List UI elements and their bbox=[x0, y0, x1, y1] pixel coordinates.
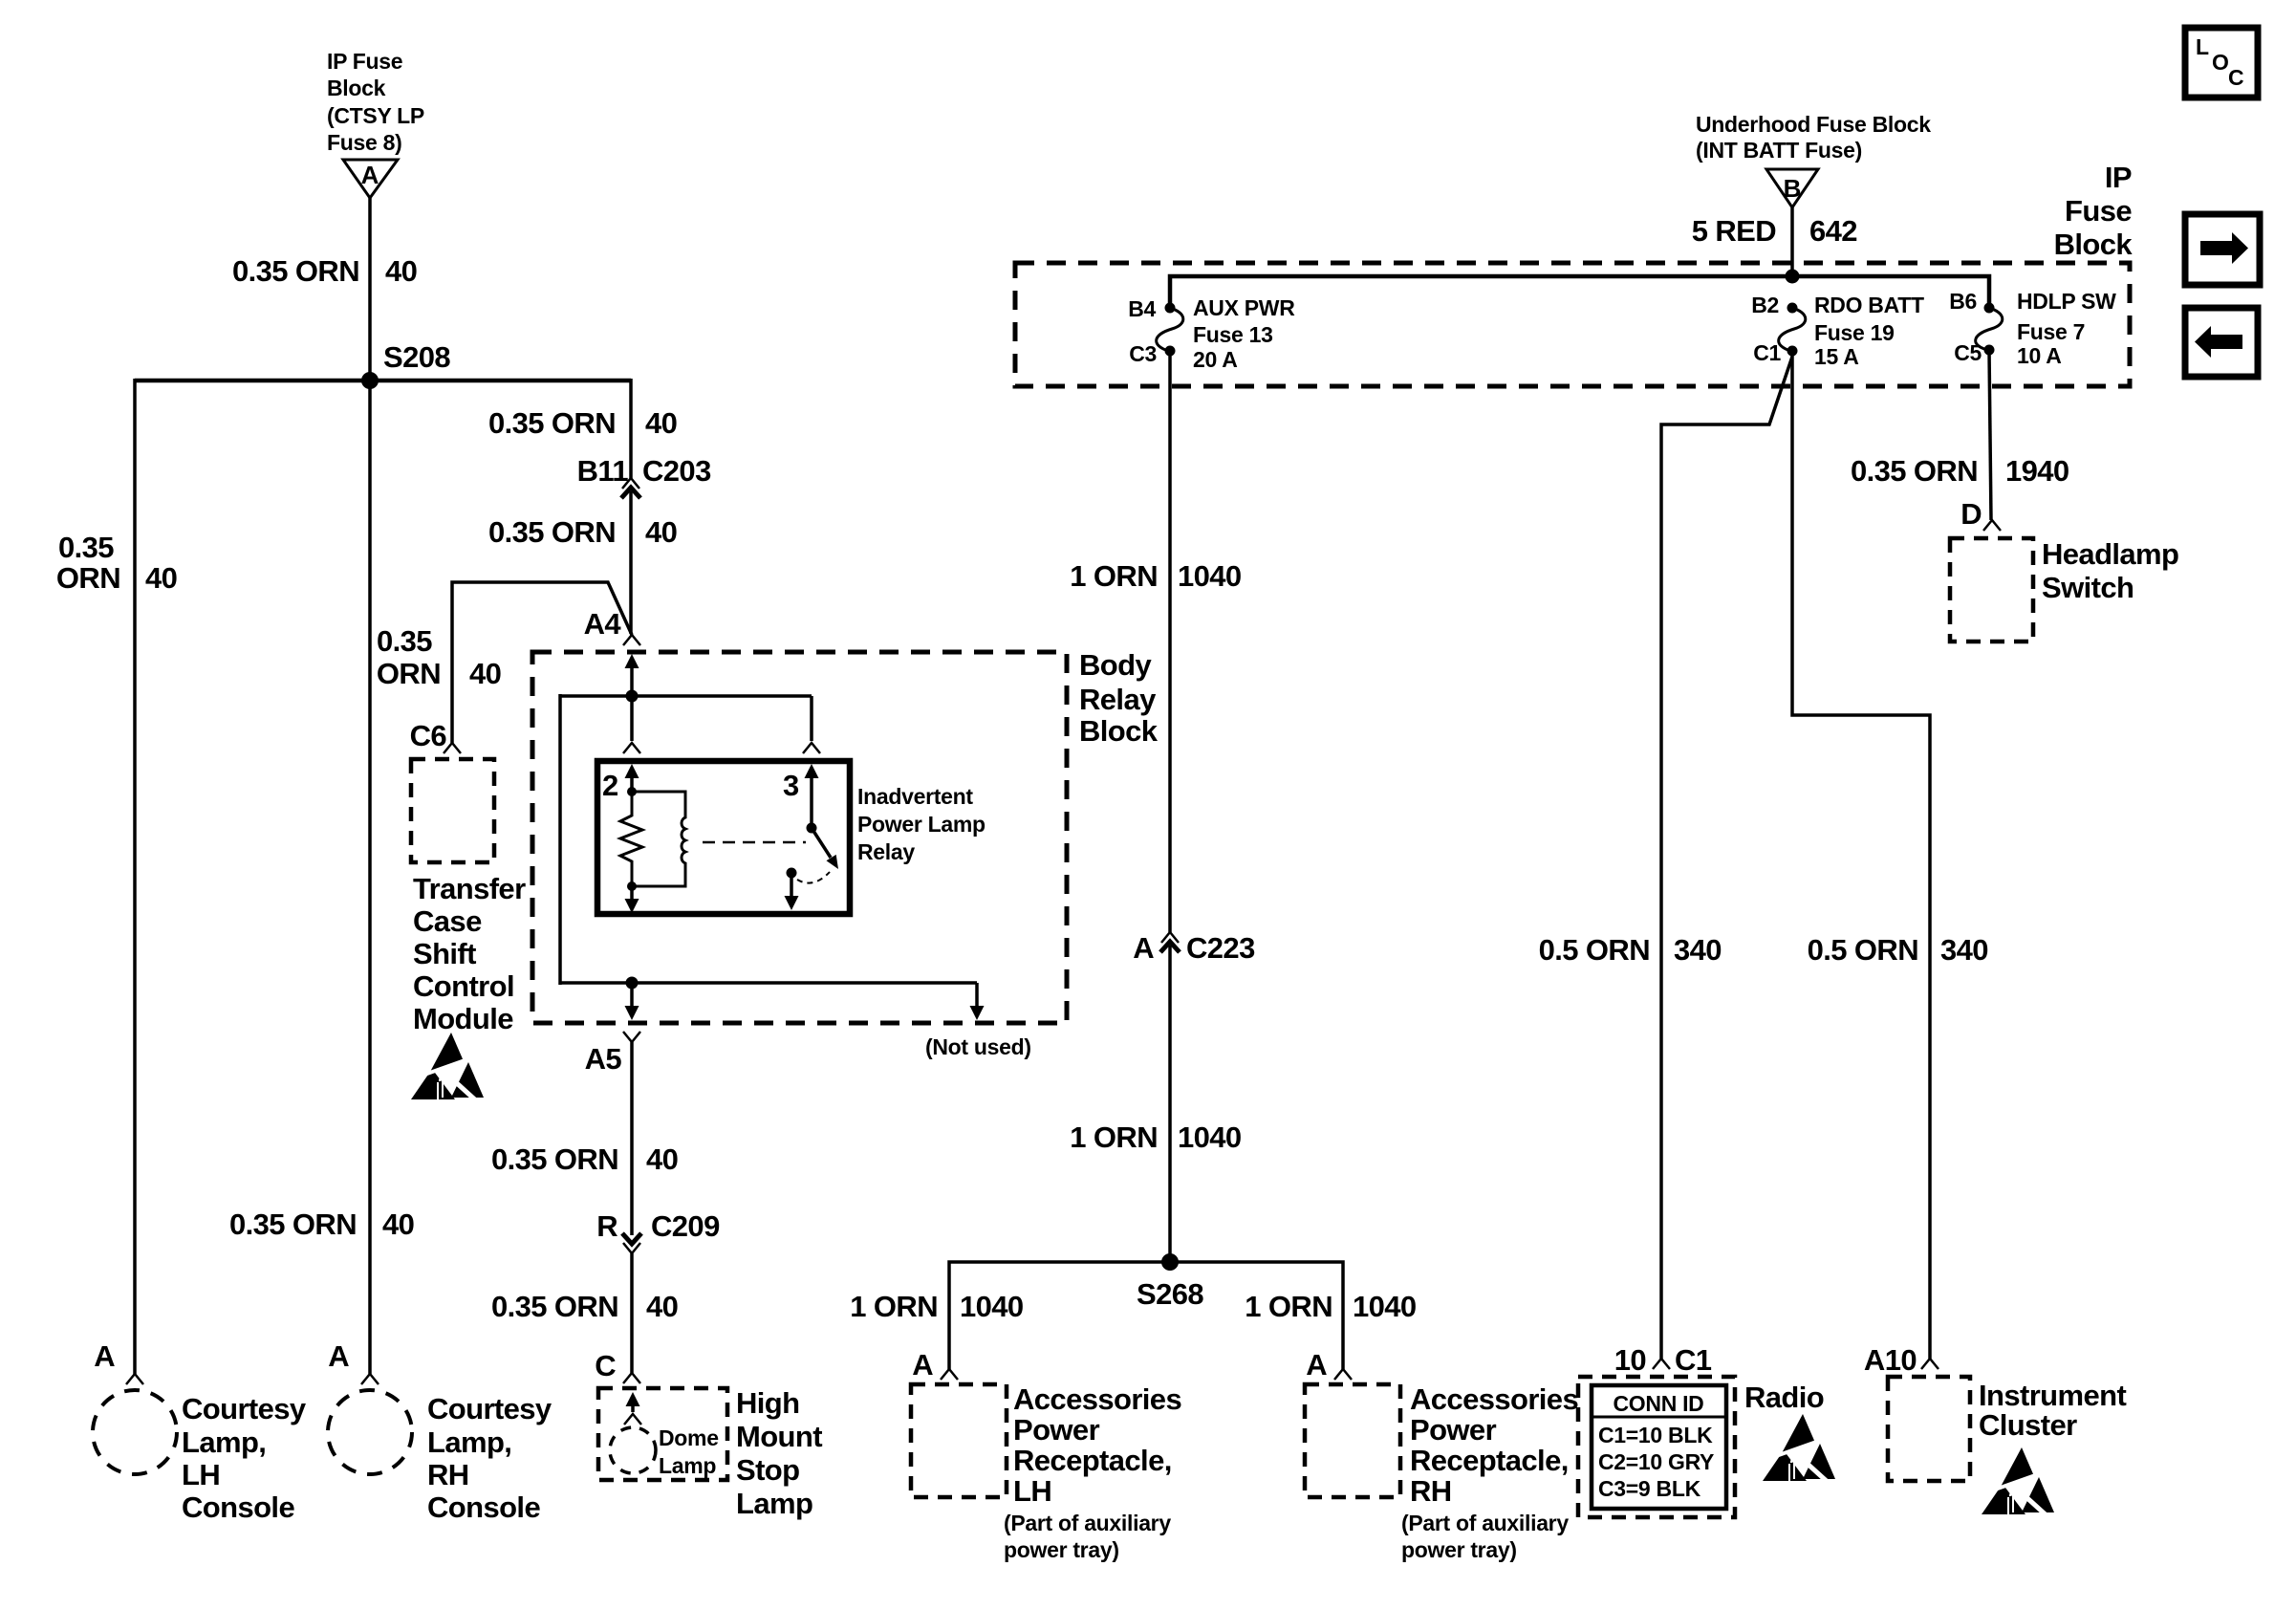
svg-text:RH: RH bbox=[1410, 1474, 1452, 1508]
transfer case shift control module dashed box bbox=[411, 759, 494, 862]
svg-text:C6: C6 bbox=[410, 719, 447, 752]
label Inadvertent Power Lamp Relay bbox=[857, 784, 986, 864]
svg-text:10: 10 bbox=[1614, 1343, 1646, 1377]
fuse AUX PWR Fuse 13 20 A bbox=[1128, 295, 1295, 372]
svg-text:(Part of auxiliary: (Part of auxiliary bbox=[1004, 1511, 1171, 1535]
svg-text:40: 40 bbox=[646, 1290, 678, 1323]
svg-text:40: 40 bbox=[145, 561, 177, 595]
svg-text:S268: S268 bbox=[1137, 1277, 1203, 1311]
wire: right branch down to connector C203 bbox=[629, 379, 633, 478]
svg-text:Instrument: Instrument bbox=[1979, 1379, 2126, 1412]
high mount stop lamp dashed box bbox=[598, 1388, 727, 1480]
svg-text:power tray): power tray) bbox=[1401, 1537, 1517, 1562]
svg-text:Control: Control bbox=[413, 969, 514, 1003]
connector pin A at courtesy lamp RH bbox=[328, 1339, 379, 1384]
label High Mount Stop Lamp bbox=[736, 1386, 822, 1520]
LOC legend box bbox=[2185, 28, 2258, 98]
svg-text:1040: 1040 bbox=[1178, 1120, 1242, 1154]
relay pin 2 internal arrow bbox=[625, 764, 639, 778]
svg-text:A: A bbox=[328, 1339, 349, 1373]
svg-text:B4: B4 bbox=[1128, 296, 1156, 321]
svg-text:O: O bbox=[2212, 50, 2229, 75]
svg-text:Courtesy: Courtesy bbox=[182, 1392, 307, 1425]
wire label 0.35 ORN 40 (above dome lamp) bbox=[491, 1290, 678, 1323]
ESD symbol (radio) bbox=[1763, 1414, 1835, 1484]
power source triangle A (IP Fuse Block CTSY LP Fuse 8) bbox=[343, 160, 398, 198]
svg-text:1040: 1040 bbox=[960, 1290, 1024, 1323]
svg-text:R: R bbox=[596, 1209, 617, 1243]
svg-text:Power: Power bbox=[1410, 1413, 1497, 1447]
wire: internal feed bus bbox=[1170, 276, 1989, 308]
in-line connector B11 C203 bbox=[577, 454, 711, 498]
svg-text:LH: LH bbox=[182, 1458, 220, 1491]
svg-text:Relay: Relay bbox=[1079, 683, 1157, 716]
label IP Fuse Block bbox=[2054, 161, 2134, 261]
svg-text:Fuse 7: Fuse 7 bbox=[2017, 319, 2085, 344]
svg-text:10 A: 10 A bbox=[2017, 343, 2062, 368]
svg-text:0.35 ORN: 0.35 ORN bbox=[488, 406, 616, 440]
chevron at relay pin 2 bbox=[623, 743, 640, 753]
svg-text:Body: Body bbox=[1079, 648, 1152, 682]
wire label 1 ORN 1040 (below C223) bbox=[1070, 1120, 1241, 1154]
svg-text:Radio: Radio bbox=[1744, 1381, 1824, 1414]
svg-text:B2: B2 bbox=[1751, 293, 1779, 317]
junction node on bus at B2 bbox=[1786, 270, 1800, 284]
svg-text:0.35 ORN: 0.35 ORN bbox=[491, 1142, 618, 1176]
svg-text:A5: A5 bbox=[585, 1042, 622, 1076]
connector pin A4 at body relay block bbox=[584, 607, 640, 645]
node pin2 bottom bbox=[627, 881, 637, 891]
in-line connector A C223 bbox=[1133, 931, 1255, 965]
svg-text:Courtesy: Courtesy bbox=[427, 1392, 552, 1425]
label Body Relay Block bbox=[1079, 648, 1159, 748]
chevron inside lamp box bbox=[624, 1414, 641, 1425]
wire stub to relay pin 2 bbox=[630, 696, 634, 741]
wire: S208 horizontal bus bbox=[135, 379, 631, 383]
svg-text:(INT BATT Fuse): (INT BATT Fuse) bbox=[1696, 138, 1862, 163]
connector pin A at receptacle LH bbox=[912, 1348, 958, 1382]
wire: instrument cluster feed from C1 bbox=[1792, 351, 1930, 1359]
Body Relay Block dashed box bbox=[532, 652, 1067, 1023]
label Headlamp Switch bbox=[2042, 537, 2178, 604]
svg-text:0.35 ORN: 0.35 ORN bbox=[491, 1290, 618, 1323]
svg-text:B: B bbox=[1784, 174, 1802, 203]
svg-text:LH: LH bbox=[1013, 1474, 1051, 1508]
wire to not-used pin with arrow bbox=[975, 983, 979, 1008]
svg-text:1 ORN: 1 ORN bbox=[1070, 559, 1158, 593]
next-page arrow box (right arrow) bbox=[2185, 214, 2260, 285]
svg-text:Power Lamp: Power Lamp bbox=[857, 812, 986, 837]
svg-text:C1: C1 bbox=[1675, 1343, 1712, 1377]
svg-text:CONN ID: CONN ID bbox=[1613, 1391, 1703, 1416]
svg-text:Case: Case bbox=[413, 904, 482, 938]
svg-text:642: 642 bbox=[1809, 214, 1857, 248]
junction node at A5 drop bbox=[626, 977, 639, 990]
svg-text:40: 40 bbox=[469, 657, 501, 690]
wire A5 drop with arrow bbox=[630, 983, 634, 1008]
courtesy lamp LH dashed circle bbox=[93, 1390, 177, 1474]
wire label 0.35 ORN 40 (middle branch) bbox=[229, 1207, 414, 1241]
svg-text:C223: C223 bbox=[1186, 931, 1255, 965]
svg-text:High: High bbox=[736, 1386, 799, 1420]
svg-text:0.5 ORN: 0.5 ORN bbox=[1539, 933, 1650, 967]
wire left bypass down bbox=[558, 694, 562, 985]
node pin2 top bbox=[627, 787, 637, 796]
svg-text:Lamp: Lamp bbox=[659, 1453, 716, 1478]
svg-text:Stop: Stop bbox=[736, 1453, 799, 1487]
svg-text:Lamp,: Lamp, bbox=[427, 1425, 511, 1459]
label Dome Lamp bbox=[659, 1425, 719, 1478]
wire label 0.35 ORN 40 (left branch) bbox=[56, 531, 177, 595]
svg-text:HDLP SW: HDLP SW bbox=[2017, 289, 2116, 314]
svg-text:Power: Power bbox=[1013, 1413, 1100, 1447]
wire: C6 branch horizontal with diagonal to A4 bbox=[452, 582, 632, 743]
connector pin C6 at transfer case module bbox=[410, 719, 461, 753]
svg-text:A: A bbox=[912, 1348, 933, 1382]
wire label 1 ORN 1040 (above C223) bbox=[1070, 559, 1241, 593]
svg-text:RH: RH bbox=[427, 1458, 469, 1491]
svg-text:IP Fuse: IP Fuse bbox=[327, 49, 402, 74]
svg-text:0.35: 0.35 bbox=[58, 531, 114, 564]
connector pin D at headlamp switch bbox=[1960, 497, 2001, 531]
svg-text:AUX PWR: AUX PWR bbox=[1193, 295, 1295, 320]
accessories power receptacle LH dashed box bbox=[911, 1384, 1007, 1497]
connector pin C at high mount stop lamp bbox=[595, 1349, 640, 1383]
label Accessories Power Receptacle, LH bbox=[1004, 1382, 1181, 1562]
svg-text:Lamp: Lamp bbox=[736, 1487, 812, 1520]
switch pivot node bbox=[807, 823, 817, 834]
svg-text:1 ORN: 1 ORN bbox=[1245, 1290, 1332, 1323]
radio dashed box bbox=[1578, 1377, 1735, 1517]
wire: S268 horizontal bbox=[949, 1262, 1343, 1369]
contact travel dashed arc bbox=[797, 872, 830, 883]
headlamp switch dashed box bbox=[1950, 538, 2033, 642]
wire: radio feed from C1 (diagonal, left, down) bbox=[1661, 357, 1792, 1359]
svg-text:40: 40 bbox=[382, 1207, 414, 1241]
svg-text:Block: Block bbox=[2054, 228, 2134, 261]
svg-text:B6: B6 bbox=[1949, 289, 1977, 314]
svg-text:40: 40 bbox=[645, 515, 677, 549]
wire label 0.35 ORN 1940 bbox=[1851, 454, 2069, 488]
label Courtesy Lamp, RH Console bbox=[427, 1392, 552, 1524]
instrument cluster dashed box bbox=[1888, 1377, 1970, 1481]
connector pin 10 C1 at radio bbox=[1614, 1343, 1712, 1377]
svg-text:Console: Console bbox=[427, 1490, 540, 1524]
svg-text:Transfer: Transfer bbox=[413, 872, 526, 905]
wire pin2 to coil node bbox=[630, 774, 634, 792]
fuse HDLP SW Fuse 7 10 A bbox=[1949, 289, 2116, 368]
courtesy lamp RH dashed circle bbox=[328, 1390, 412, 1474]
wire label 0.5 ORN 340 (instrument cluster) bbox=[1808, 933, 1988, 967]
relay coil branch bbox=[632, 792, 685, 886]
svg-text:Accessories: Accessories bbox=[1410, 1382, 1578, 1416]
svg-text:Headlamp: Headlamp bbox=[2042, 537, 2178, 571]
svg-text:C1: C1 bbox=[1753, 340, 1781, 365]
svg-text:5 RED: 5 RED bbox=[1692, 214, 1777, 248]
wire label 0.35 ORN 40 (above C209) bbox=[491, 1142, 678, 1176]
wire pin3 to switch pivot bbox=[810, 774, 813, 828]
svg-text:A: A bbox=[94, 1339, 115, 1373]
chevron at relay pin 3 bbox=[803, 743, 820, 753]
connector pin A at courtesy lamp LH bbox=[94, 1339, 143, 1384]
svg-text:ORN: ORN bbox=[56, 561, 120, 595]
junction node above relay bbox=[626, 690, 639, 703]
arrow pin2 to relay case bottom bbox=[630, 886, 634, 901]
inadvertent power lamp relay box bbox=[597, 761, 850, 914]
svg-text:C5: C5 bbox=[1954, 340, 1982, 365]
svg-text:0.35 ORN: 0.35 ORN bbox=[232, 254, 359, 288]
wire C223 down to S268 bbox=[1168, 946, 1172, 1262]
relay pin 3 internal arrow bbox=[805, 764, 819, 778]
relay actuation dashed line bbox=[703, 841, 806, 844]
IP Fuse Block dashed box bbox=[1015, 263, 2130, 386]
svg-text:Block: Block bbox=[1079, 714, 1159, 748]
wire from C203 to A4 bbox=[629, 491, 633, 634]
svg-text:Receptacle,: Receptacle, bbox=[1013, 1444, 1172, 1477]
svg-text:1040: 1040 bbox=[1178, 559, 1242, 593]
svg-text:C203: C203 bbox=[642, 454, 711, 488]
splice S208 bbox=[361, 340, 450, 389]
svg-text:40: 40 bbox=[646, 1142, 678, 1176]
wire bottom bypass horizontal bbox=[560, 981, 977, 985]
svg-text:3: 3 bbox=[783, 769, 799, 802]
svg-text:0.35 ORN: 0.35 ORN bbox=[229, 1207, 357, 1241]
dome lamp dashed circle bbox=[610, 1427, 656, 1473]
arrow into block at A4 bbox=[625, 654, 639, 668]
wire label 0.35 ORN 40 (above S208) bbox=[232, 254, 417, 288]
connector pin A5 leaving body relay block bbox=[585, 1032, 640, 1076]
ESD symbol (transfer case module) bbox=[411, 1033, 484, 1102]
svg-text:40: 40 bbox=[645, 406, 677, 440]
svg-text:1 ORN: 1 ORN bbox=[850, 1290, 938, 1323]
svg-text:20 A: 20 A bbox=[1193, 347, 1238, 372]
svg-text:D: D bbox=[1960, 497, 1982, 531]
svg-text:S208: S208 bbox=[383, 340, 450, 374]
wire: left branch down to courtesy lamp LH bbox=[133, 379, 137, 1374]
wire from triangle A to S208 bbox=[368, 198, 372, 381]
svg-text:C3=9 BLK: C3=9 BLK bbox=[1598, 1476, 1701, 1501]
svg-text:Dome: Dome bbox=[659, 1425, 719, 1450]
wire from triangle B to bus bbox=[1790, 207, 1794, 276]
svg-text:Fuse: Fuse bbox=[2065, 194, 2132, 228]
svg-text:0.35 ORN: 0.35 ORN bbox=[488, 515, 616, 549]
wire: HDLP SW feed from C5 to D bbox=[1989, 350, 1991, 520]
svg-text:Fuse 13: Fuse 13 bbox=[1193, 322, 1273, 347]
svg-text:B11: B11 bbox=[577, 454, 629, 488]
IP Fuse Block (CTSY LP Fuse 8) source label bbox=[327, 49, 424, 155]
ESD symbol (instrument cluster) bbox=[1982, 1447, 2054, 1517]
svg-text:Mount: Mount bbox=[736, 1420, 822, 1453]
CONN ID table bbox=[1592, 1385, 1726, 1509]
svg-text:Cluster: Cluster bbox=[1979, 1408, 2077, 1442]
svg-text:0.5 ORN: 0.5 ORN bbox=[1808, 933, 1918, 967]
fuse RDO BATT Fuse 19 15 A bbox=[1751, 293, 1924, 369]
svg-text:C2=10 GRY: C2=10 GRY bbox=[1598, 1449, 1714, 1474]
wire label 0.35 ORN 40 (below C203) bbox=[488, 515, 677, 549]
wire label 0.35 ORN 40 (C6 branch) bbox=[377, 624, 501, 690]
svg-text:Fuse 8): Fuse 8) bbox=[327, 130, 401, 155]
svg-text:Shift: Shift bbox=[413, 937, 476, 970]
wire stub inside lamp box bbox=[631, 1403, 635, 1412]
svg-text:Block: Block bbox=[327, 76, 386, 100]
arrow into lamp box bbox=[626, 1392, 640, 1406]
connector pin A at receptacle RH bbox=[1306, 1348, 1352, 1382]
svg-text:RDO BATT: RDO BATT bbox=[1814, 293, 1924, 317]
wire label 1 ORN 1040 (LH receptacle) bbox=[850, 1290, 1023, 1323]
svg-text:(Part of auxiliary: (Part of auxiliary bbox=[1401, 1511, 1569, 1535]
svg-text:L: L bbox=[2196, 34, 2209, 59]
wire horizontal to relay pins bbox=[560, 694, 812, 698]
svg-text:A: A bbox=[1133, 931, 1154, 965]
wire: middle branch S208 down to courtesy lamp RH bbox=[368, 381, 372, 1374]
svg-text:0.35 ORN: 0.35 ORN bbox=[1851, 454, 1978, 488]
svg-text:1 ORN: 1 ORN bbox=[1070, 1120, 1158, 1154]
switch contact node bbox=[787, 868, 797, 879]
svg-text:C3: C3 bbox=[1129, 341, 1157, 366]
svg-text:1040: 1040 bbox=[1353, 1290, 1417, 1323]
svg-text:A4: A4 bbox=[584, 607, 622, 641]
svg-text:C: C bbox=[2228, 65, 2243, 90]
wire A5 down to C209 bbox=[630, 1042, 634, 1235]
svg-text:A: A bbox=[361, 161, 379, 189]
svg-text:340: 340 bbox=[1940, 933, 1988, 967]
svg-text:Lamp,: Lamp, bbox=[182, 1425, 266, 1459]
svg-text:Console: Console bbox=[182, 1490, 294, 1524]
wire label 0.35 ORN 40 (above C203) bbox=[488, 406, 677, 440]
accessories power receptacle RH dashed box bbox=[1305, 1384, 1400, 1497]
svg-text:A10: A10 bbox=[1864, 1343, 1917, 1377]
svg-text:(CTSY LP: (CTSY LP bbox=[327, 103, 424, 128]
previous-page arrow box (left arrow) bbox=[2185, 308, 2258, 377]
wire label 1 ORN 1040 (RH receptacle) bbox=[1245, 1290, 1416, 1323]
svg-text:C1=10 BLK: C1=10 BLK bbox=[1598, 1423, 1713, 1447]
svg-text:Fuse 19: Fuse 19 bbox=[1814, 320, 1895, 345]
svg-text:Inadvertent: Inadvertent bbox=[857, 784, 973, 809]
svg-text:340: 340 bbox=[1674, 933, 1722, 967]
wire label 5 RED 642 bbox=[1692, 214, 1857, 248]
in-line connector R C209 bbox=[596, 1209, 720, 1253]
svg-text:power tray): power tray) bbox=[1004, 1537, 1119, 1562]
svg-text:40: 40 bbox=[385, 254, 417, 288]
switch arm with arrowhead bbox=[812, 828, 831, 858]
svg-text:1940: 1940 bbox=[2005, 454, 2069, 488]
svg-text:0.35: 0.35 bbox=[377, 624, 432, 658]
power source triangle B (Underhood Fuse Block INT BATT Fuse) bbox=[1766, 169, 1818, 207]
wire A4 arrow down to junction bbox=[630, 665, 634, 696]
svg-text:Relay: Relay bbox=[857, 839, 915, 864]
svg-text:Underhood Fuse Block: Underhood Fuse Block bbox=[1696, 112, 1931, 137]
svg-text:Switch: Switch bbox=[2042, 571, 2134, 604]
Underhood Fuse Block (INT BATT Fuse) source label bbox=[1696, 112, 1931, 163]
svg-text:(Not used): (Not used) bbox=[925, 1034, 1031, 1059]
svg-text:2: 2 bbox=[602, 769, 618, 802]
svg-text:Receptacle,: Receptacle, bbox=[1410, 1444, 1569, 1477]
svg-text:Module: Module bbox=[413, 1002, 513, 1035]
label Instrument Cluster bbox=[1979, 1379, 2126, 1442]
splice S268 bbox=[1137, 1253, 1203, 1311]
connector pin A10 at instrument cluster bbox=[1864, 1343, 1939, 1377]
svg-text:A: A bbox=[1306, 1348, 1327, 1382]
svg-text:ORN: ORN bbox=[377, 657, 441, 690]
wire C209 down to dome lamp bbox=[630, 1253, 634, 1373]
wire: AUX PWR feed down to C223 bbox=[1168, 351, 1172, 932]
label Accessories Power Receptacle, RH bbox=[1401, 1382, 1578, 1562]
svg-text:Accessories: Accessories bbox=[1013, 1382, 1181, 1416]
svg-text:C: C bbox=[595, 1349, 616, 1382]
label Transfer Case Shift Control Module bbox=[413, 872, 526, 1035]
label Courtesy Lamp, LH Console bbox=[182, 1392, 307, 1524]
resistor (relay internal) bbox=[620, 792, 642, 886]
wire stub to relay pin 3 bbox=[810, 696, 813, 741]
wire label 0.5 ORN 340 (radio) bbox=[1539, 933, 1722, 967]
svg-text:C209: C209 bbox=[651, 1209, 720, 1243]
svg-text:15 A: 15 A bbox=[1814, 344, 1859, 369]
contact arrow to relay case bottom bbox=[790, 873, 793, 898]
svg-text:IP: IP bbox=[2105, 161, 2132, 194]
